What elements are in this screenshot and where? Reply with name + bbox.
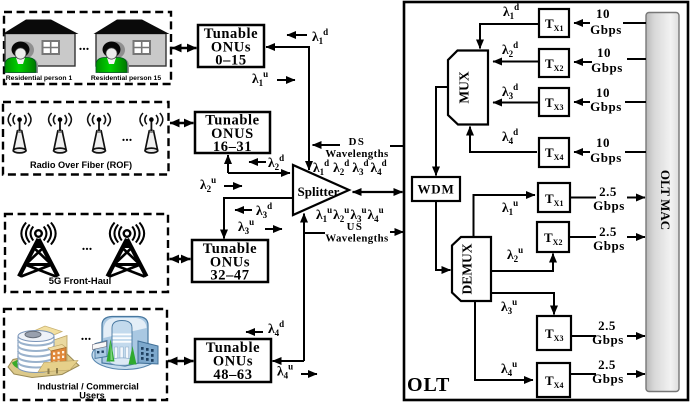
wire splitter to ONUs 32-47 <box>224 198 293 239</box>
10 Gbps row 4 <box>574 135 646 165</box>
double arrow industrial to ONUs 48-63 <box>168 360 194 363</box>
wire ONUS 16-31 to splitter <box>228 172 290 174</box>
WDM box <box>412 177 460 201</box>
svg-text:Wavelengths: Wavelengths <box>325 233 388 245</box>
TX3 lower box <box>537 316 571 350</box>
5G tower 2 <box>108 223 147 277</box>
house 2 <box>94 20 170 67</box>
wire lambda4 trunk splitter bottom <box>303 214 305 362</box>
wire into ONUS 16-31 bottom <box>227 155 229 173</box>
person 2 <box>96 42 129 74</box>
arrow lambda3u indicator <box>265 228 282 230</box>
TX2 lower box <box>537 222 569 252</box>
wire DS to OLT <box>390 145 405 147</box>
splitter triangle <box>293 165 349 215</box>
10 Gbps row 1 <box>574 6 646 37</box>
double arrow residential to ONUs 0-15 <box>172 47 197 50</box>
arrow lambda2u indicator <box>224 185 242 187</box>
DEMUX polygon <box>452 237 491 301</box>
svg-text:10: 10 <box>597 45 611 60</box>
10 Gbps row 3 <box>574 85 646 114</box>
box tunable ONUs 48-63 <box>195 339 271 383</box>
arrow lambda4u indicator <box>301 373 317 375</box>
svg-text:Wavelengths: Wavelengths <box>325 148 388 160</box>
2.5 Gbps row 3 <box>571 318 645 347</box>
2.5 Gbps row 4 <box>570 357 645 386</box>
TX3 upper box <box>539 88 569 116</box>
svg-text:Splitter: Splitter <box>298 184 340 199</box>
TX1 lower box <box>538 183 570 212</box>
10 Gbps row 2 <box>574 45 646 75</box>
svg-text:32–47: 32–47 <box>210 268 249 284</box>
svg-text:...: ... <box>122 130 133 145</box>
svg-text:Gbps: Gbps <box>593 198 625 213</box>
antenna 3 <box>88 113 111 153</box>
OLT outer box <box>404 2 688 400</box>
MUX polygon <box>448 51 488 125</box>
TX4 lower box <box>537 363 570 397</box>
box tunable ONUs 32-47 <box>192 240 268 284</box>
building 2 (blue glass office tower) <box>92 317 158 370</box>
double arrow 5G to ONUs 32-47 <box>170 258 191 261</box>
building 1 (white cylinder office tower) <box>8 326 79 378</box>
2.5 Gbps row 1 <box>570 184 645 213</box>
svg-text:Gbps: Gbps <box>591 60 623 75</box>
wire into ONUs 48-63 <box>273 360 305 362</box>
2.5 Gbps row 2 <box>569 224 645 253</box>
wire lambda1u DEMUX to TX1 <box>474 195 536 237</box>
svg-text:MUX: MUX <box>457 71 472 103</box>
double arrow splitter to OLT <box>353 191 403 193</box>
wire lambda4d TX4 to MUX <box>470 127 537 153</box>
svg-text:Gbps: Gbps <box>592 371 624 386</box>
TX1 upper box <box>539 9 569 37</box>
svg-text:Radio Over Fiber (ROF): Radio Over Fiber (ROF) <box>30 160 132 170</box>
svg-text:2.5: 2.5 <box>598 318 616 333</box>
svg-text:16–31: 16–31 <box>213 139 252 155</box>
5G tower 1 <box>19 223 58 277</box>
antenna 4 <box>140 113 163 153</box>
svg-text:2.5: 2.5 <box>598 357 616 372</box>
arrow lambda1d indicator <box>287 34 307 36</box>
svg-text:10: 10 <box>596 135 610 150</box>
svg-text:2.5: 2.5 <box>599 184 617 199</box>
svg-text:Residential person 15: Residential person 15 <box>91 75 161 82</box>
dashed box industrial/commercial <box>4 309 167 400</box>
arrow lambda3d indicator <box>235 209 252 211</box>
svg-text:WDM: WDM <box>417 182 454 197</box>
arrow lambda4d indicator <box>246 331 263 333</box>
svg-text:Gbps: Gbps <box>593 238 625 253</box>
wire US from trunk <box>305 232 325 234</box>
svg-text:...: ... <box>81 329 92 344</box>
svg-text:...: ... <box>79 39 90 54</box>
svg-text:OLT: OLT <box>407 374 450 396</box>
arrow DS indicator <box>313 144 341 146</box>
svg-text:...: ... <box>82 239 93 254</box>
wire lambda1d TX1 to MUX <box>480 24 539 49</box>
dashed box 5G front-haul <box>5 214 168 292</box>
arrow lambda2d indicator <box>249 161 266 163</box>
box tunable ONUs 0-15 <box>198 25 264 69</box>
svg-text:Users: Users <box>79 391 105 401</box>
OLT MAC bar <box>646 13 679 392</box>
svg-text:Gbps: Gbps <box>592 332 624 347</box>
svg-text:OLT MAC: OLT MAC <box>658 170 673 230</box>
dashed box residential users <box>4 12 171 84</box>
wire MUX to WDM <box>436 87 448 176</box>
svg-text:2.5: 2.5 <box>599 224 617 239</box>
svg-text:Residential person 1: Residential person 1 <box>6 75 73 82</box>
wire lambda3d TX3 to MUX <box>493 102 539 104</box>
house 1 <box>3 20 79 67</box>
wire lambda2u DEMUX to TX2 <box>491 254 553 272</box>
svg-text:DEMUX: DEMUX <box>460 243 475 294</box>
wire WDM to DEMUX <box>436 201 451 270</box>
wire lambda4u DEMUX to TX4 <box>475 301 533 380</box>
wire lambda3u DEMUX to TX3 <box>491 293 554 315</box>
antenna 2 <box>49 113 72 153</box>
arrow US to OLT <box>390 231 404 233</box>
svg-text:Gbps: Gbps <box>590 99 622 114</box>
svg-text:10: 10 <box>596 6 610 21</box>
svg-text:Gbps: Gbps <box>590 22 622 37</box>
person 1 <box>5 42 38 74</box>
box tunable ONUS 16-31 <box>195 112 270 155</box>
dashed box radio over fiber <box>3 102 169 175</box>
wire lambda1d vertical trunk <box>308 46 310 170</box>
double arrow ROF to ONUS 16-31 <box>170 122 194 125</box>
TX4 upper box <box>539 138 569 167</box>
arrow lambda1u indicator <box>277 79 295 81</box>
wire into ONUs 0-15 <box>266 46 309 48</box>
TX2 upper box <box>539 49 569 77</box>
svg-text:Gbps: Gbps <box>590 150 622 165</box>
svg-text:48–63: 48–63 <box>213 367 252 383</box>
svg-text:5G Front-Haul: 5G Front-Haul <box>49 275 112 286</box>
svg-text:US: US <box>347 221 364 233</box>
svg-text:0–15: 0–15 <box>215 53 246 69</box>
antenna 1 <box>8 113 31 153</box>
svg-text:DS: DS <box>349 136 366 148</box>
wire lambda2d TX2 to MUX <box>493 61 539 63</box>
svg-text:10: 10 <box>596 85 610 100</box>
